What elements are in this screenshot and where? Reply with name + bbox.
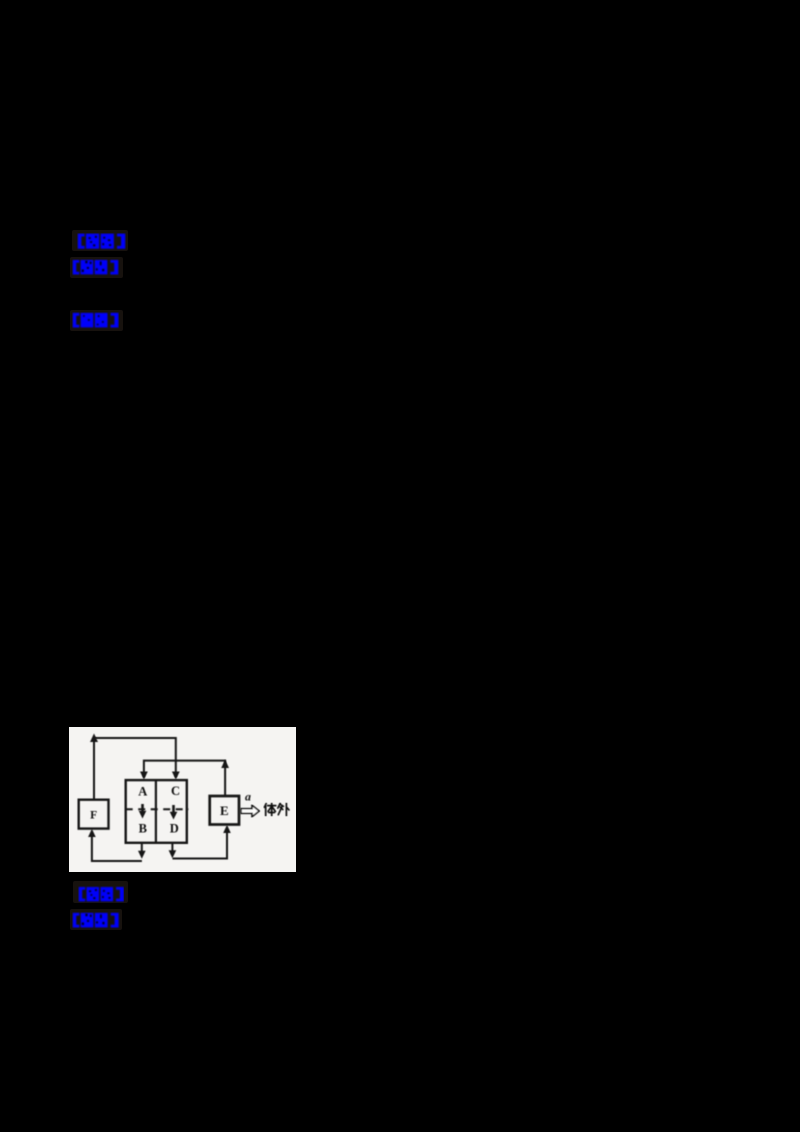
svg-text:A: A: [138, 785, 147, 799]
svg-text:a: a: [245, 789, 251, 803]
svg-text:F: F: [90, 810, 97, 822]
svg-text:B: B: [139, 822, 147, 836]
svg-text:E: E: [220, 803, 229, 818]
svg-text:D: D: [170, 822, 179, 836]
svg-text:C: C: [171, 784, 180, 798]
